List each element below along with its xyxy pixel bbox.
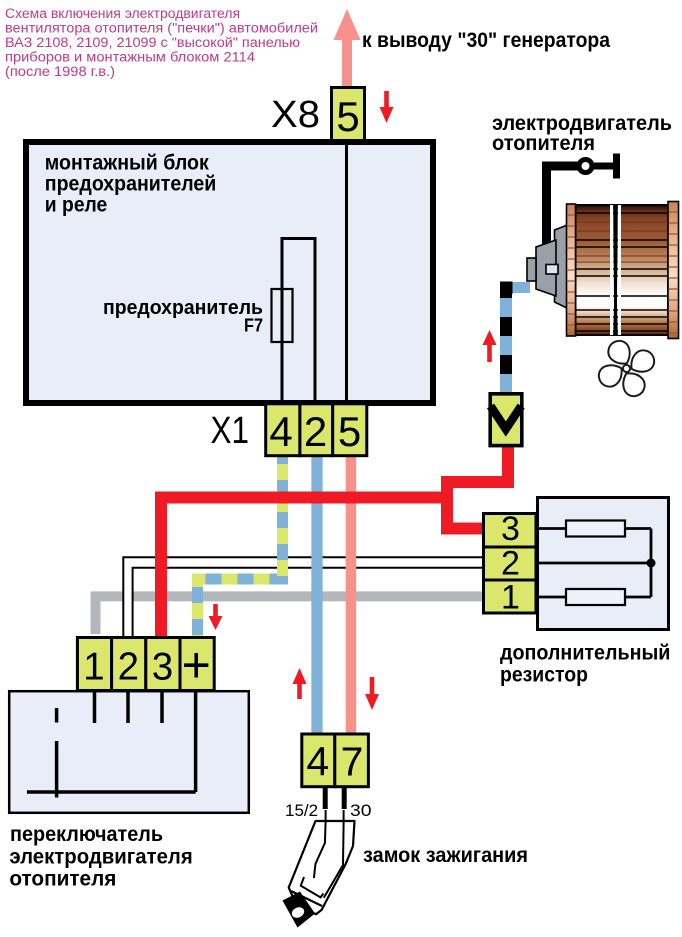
ignition pin leads (323, 787, 328, 809)
junction dot (647, 559, 656, 568)
red wire: main feed to switch pin3 (161, 498, 453, 637)
svg-text:F7: F7 (244, 315, 263, 336)
svg-text:1: 1 (83, 646, 104, 689)
red flow arrow near ignition (down) (365, 677, 379, 710)
switch internal contacts (27, 691, 196, 798)
svg-text:электродвигателя: электродвигателя (9, 846, 192, 869)
svg-text:вентилятора отопителя ("печки": вентилятора отопителя ("печки") автомоби… (5, 20, 318, 35)
svg-text:15/2: 15/2 (285, 801, 318, 820)
blue wire X1 pin2 to ignition pin4 (311, 456, 322, 733)
svg-text:1: 1 (501, 579, 520, 617)
motor body stripe lines (576, 213, 669, 331)
svg-text:дополнительный: дополнительный (500, 642, 670, 665)
resistor element R1 (566, 521, 625, 537)
red flow arrow near motor wire (up) (483, 330, 497, 362)
svg-text:ВАЗ 2108, 2109, 21099 с "высок: ВАЗ 2108, 2109, 21099 с "высокой" панель… (5, 35, 300, 50)
svg-text:3: 3 (152, 646, 173, 689)
resistor element R2 (566, 589, 625, 605)
salmon wire to generator terminal 30 (342, 39, 352, 86)
title caption (5, 6, 318, 79)
label: монтажный блок предохранителей и реле (45, 152, 217, 217)
switch body (переключатель) (9, 691, 249, 813)
svg-text:2: 2 (304, 408, 327, 455)
connector X1 pins 4 2 5 (266, 404, 367, 456)
svg-text:5: 5 (336, 93, 359, 140)
mounting block (монтажный блок) body (26, 142, 433, 403)
wire: X8 pin5 to X1 pin5 inside block (345, 142, 348, 403)
svg-text:переключатель: переключатель (10, 823, 163, 846)
svg-text:+: + (182, 637, 211, 693)
connector X8 pin 5 (332, 88, 365, 141)
switch connector pins 1 2 3 + (77, 637, 214, 693)
end cap stripe texture (567, 212, 678, 333)
svg-text:4: 4 (306, 739, 329, 785)
svg-text:отопителя: отопителя (9, 868, 116, 891)
label: дополнительный резистор (500, 642, 670, 687)
svg-text:(после 1998 г.в.): (после 1998 г.в.) (5, 64, 115, 79)
heater motor assembly (527, 154, 679, 339)
svg-text:предохранитель: предохранитель (103, 297, 263, 319)
resistor connector pins 3 2 1 (484, 510, 537, 617)
gray wire (switch pin1 to resistor pin1) (96, 596, 483, 634)
additional resistor body (538, 498, 669, 630)
svg-text:замок зажигания: замок зажигания (363, 844, 528, 867)
red flow arrow to switch plus (down) (209, 604, 223, 630)
motor divider (610, 205, 613, 335)
svg-text:30: 30 (350, 801, 372, 820)
label: переключатель электродвигателя отопителя (9, 823, 192, 891)
wire: fuse loop X1 pin4 to X1 pin2 (282, 239, 315, 404)
svg-text:резистор: резистор (500, 664, 588, 687)
resistor internal wiring (536, 529, 651, 598)
red flow arrow near ignition (up) (293, 668, 307, 699)
motor flange bumps (562, 232, 571, 241)
motor end cap left (567, 204, 576, 336)
white wire (switch pin2 to resistor pin2) (128, 562, 482, 636)
svg-text:2: 2 (501, 545, 520, 583)
svg-text:4: 4 (269, 408, 292, 455)
svg-text:Схема включения электродвигате: Схема включения электродвигателя (5, 6, 240, 21)
red wire: connector to resistor pin3 (447, 444, 508, 529)
svg-text:монтажный блок: монтажный блок (45, 152, 209, 175)
fan icon (597, 339, 657, 399)
salmon wire X1 pin5 to ignition pin7 (346, 456, 357, 733)
mount connector ring (579, 160, 592, 173)
motor mount / ground bar (547, 154, 617, 249)
svg-text:предохранителей: предохранителей (45, 173, 217, 196)
red flow arrow near X8 (380, 91, 394, 123)
motor end cap right (668, 202, 679, 339)
fuse F7 body (272, 289, 293, 342)
svg-text:и реле: и реле (45, 194, 108, 217)
svg-text:X1: X1 (211, 410, 250, 452)
svg-text:отопителя: отопителя (492, 132, 595, 155)
svg-text:приборов и монтажным блоком 21: приборов и монтажным блоком 2114 (5, 49, 256, 64)
svg-text:7: 7 (341, 739, 364, 785)
blue/black wire motor to connector (500, 288, 512, 393)
svg-text:2: 2 (118, 646, 139, 689)
dashed wire X1 pin4 to switch plus (198, 456, 283, 636)
svg-text:X8: X8 (271, 94, 320, 136)
svg-text:к выводу "30" генератора: к выводу "30" генератора (362, 29, 610, 52)
svg-text:5: 5 (338, 408, 361, 455)
motor gray connector (527, 222, 575, 312)
ignition lock key (283, 810, 355, 928)
connector symbol to motor (chevron box) (490, 394, 522, 446)
label: электродвигатель отопителя (492, 112, 672, 155)
svg-text:3: 3 (501, 510, 520, 548)
ignition connector pins 4 7 (302, 734, 369, 787)
